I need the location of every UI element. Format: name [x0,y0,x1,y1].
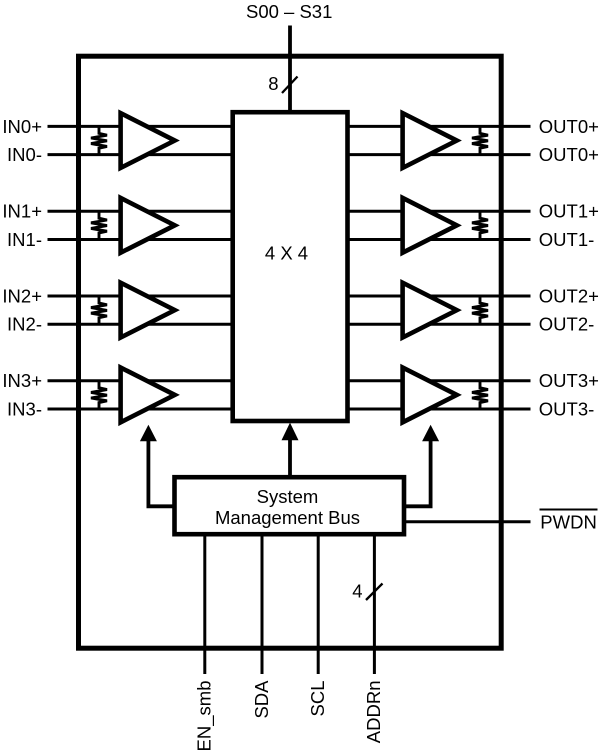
svg-text:PWDN: PWDN [540,512,597,533]
svg-text:OUT1-: OUT1- [539,229,595,250]
svg-text:OUT1+: OUT1+ [539,201,599,222]
svg-text:4 X 4: 4 X 4 [265,242,308,263]
control arrow to switch matrix (center) [288,440,292,478]
input buffer amplifier A3 [121,368,175,423]
svg-text:OUT0+: OUT0+ [539,116,599,137]
wire OUT1+ [348,210,531,213]
wire OUT2+ [348,295,531,298]
wire IN1- [48,238,233,241]
wire OUT2- [348,323,531,326]
wire IN2- [48,323,233,326]
svg-text:IN2-: IN2- [7,314,42,335]
wire OUT0+ [348,125,531,128]
svg-text:IN3+: IN3+ [2,370,42,391]
svg-text:IN1-: IN1- [7,229,42,250]
system management bus block U2 [175,477,405,534]
output termination resistor RO1 [472,211,488,239]
output driver amplifier B3 [403,368,457,423]
svg-text:System: System [257,486,319,507]
wire IN3+ [48,379,233,382]
wire IN3- [48,408,233,411]
svg-text:OUT2+: OUT2+ [539,285,599,306]
output termination resistor RO2 [472,296,488,324]
svg-text:SCL: SCL [307,681,328,717]
wire SDA [261,534,264,674]
wire OUT3+ [348,379,531,382]
svg-text:EN_smb: EN_smb [194,681,216,752]
svg-text:OUT0+: OUT0+ [539,144,599,165]
output driver amplifier B2 [403,283,457,338]
wire IN0+ [48,125,233,128]
bus width slash on ADDRn [366,584,383,601]
wire EN_smb [203,534,206,674]
svg-text:SDA: SDA [251,680,272,719]
input termination resistor RT2 [91,296,107,324]
svg-text:OUT2-: OUT2- [539,314,595,335]
svg-text:S00 – S31: S00 – S31 [246,1,332,22]
input termination resistor RT3 [91,381,107,409]
input termination resistor RT0 [91,126,107,154]
svg-text:OUT3+: OUT3+ [539,370,599,391]
bus width slash on S bus [282,77,298,94]
wire ADDRn [373,534,376,674]
wire S00-S31 bus vertical [288,26,292,113]
wire OUT0- [348,153,531,156]
switch matrix U1 4x4 box [233,112,348,421]
input buffer amplifier A1 [121,198,175,253]
svg-text:IN0+: IN0+ [2,116,42,137]
chip outline box [79,56,502,648]
wire OUT1- [348,238,531,241]
output driver amplifier B0 [403,113,457,168]
svg-text:IN1+: IN1+ [2,201,42,222]
wire IN1+ [48,210,233,213]
svg-text:OUT3-: OUT3- [539,398,595,419]
svg-text:4: 4 [352,581,362,602]
control arrow to output drivers (right) [404,440,431,506]
wire SCL [317,534,320,674]
wire PWDN [404,520,531,523]
output termination resistor RO0 [472,126,488,154]
input buffer amplifier A0 [121,113,175,168]
input buffer amplifier A2 [121,283,175,338]
control arrow to input buffers (left) [148,440,174,506]
svg-text:Management Bus: Management Bus [215,507,360,528]
wire IN2+ [48,295,233,298]
wire IN0- [48,153,233,156]
svg-text:IN0-: IN0- [7,144,42,165]
output termination resistor RO3 [472,381,488,409]
svg-text:IN2+: IN2+ [2,285,42,306]
svg-text:IN3-: IN3- [7,398,42,419]
wire OUT3- [348,408,531,411]
svg-text:ADDRn: ADDRn [363,681,384,744]
output driver amplifier B1 [403,198,457,253]
input termination resistor RT1 [91,211,107,239]
PWDN overline (active low bar) [540,509,598,511]
svg-text:8: 8 [268,73,278,94]
